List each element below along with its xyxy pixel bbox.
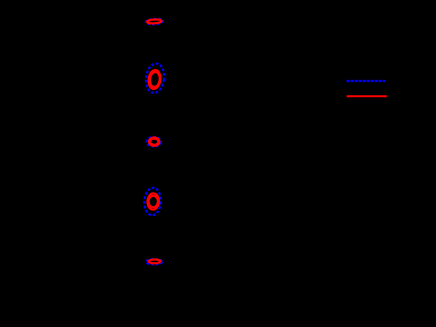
- cluster 5 blue dashed ellipse: [146, 259, 162, 264]
- cluster 3 red outer ellipse: [149, 138, 159, 146]
- cluster 2 red outer ellipse: [148, 69, 162, 89]
- cluster 4 red inner ellipse: [148, 196, 158, 208]
- legend blue dashed line: [347, 80, 386, 82]
- cluster 3 blue dashed ellipse: [147, 137, 161, 147]
- cluster 1 red ellipse: [147, 19, 162, 24]
- cluster 4 blue dashed ellipse: [144, 187, 162, 215]
- cluster 5 red ellipse: [149, 260, 161, 264]
- cluster 1 blue dashed ellipse: [146, 18, 164, 24]
- cluster 2 blue dashed ellipse: [144, 63, 165, 94]
- legend red line: [347, 95, 387, 97]
- cluster 2 red inner ellipse: [149, 71, 161, 87]
- cluster 3 red inner ellipse: [150, 139, 158, 145]
- cluster 4 red outer ellipse: [147, 193, 159, 210]
